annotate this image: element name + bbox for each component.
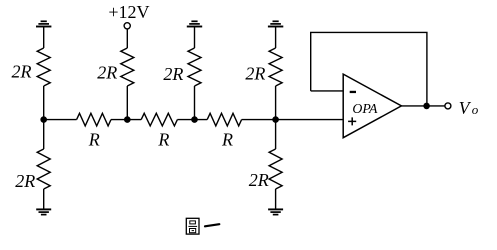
wire feedback loop (left up, top, right down) (311, 32, 427, 106)
caption figure-one character yi (drawn) (205, 224, 219, 226)
op-amp minus sign (350, 91, 356, 93)
caption figure-one character tu (drawn) (186, 218, 199, 234)
svg-text:+12V: +12V (108, 2, 149, 22)
wire node A to resistor R1 (44, 119, 77, 121)
wire column1: resistor to node A (43, 86, 45, 120)
resistor 2R (column 4 lower) (269, 149, 282, 189)
wire op-amp output (401, 105, 445, 107)
wire R3 to node D and op-amp + input (242, 119, 344, 121)
wire column1 top: ground to resistor (43, 27, 45, 49)
junction node C (191, 116, 198, 123)
ground GND top-left (column 1) (36, 21, 51, 26)
svg-text:2R: 2R (163, 64, 183, 84)
wire column2: resistor to node B (126, 86, 128, 120)
resistor 2R (column 1 upper) (37, 48, 50, 86)
wire op-amp inverting input stub (311, 90, 344, 92)
wire column4: resistor to node D (275, 86, 277, 120)
svg-text:2R: 2R (15, 171, 35, 191)
op-amp plus sign (348, 117, 356, 125)
wire R1 to node B (111, 119, 141, 121)
svg-text:R: R (221, 130, 233, 150)
junction output node (423, 103, 430, 110)
resistor R (first, horizontal) (77, 113, 111, 126)
wire column4 top: ground to resistor (275, 27, 277, 49)
wire column1: node A to lower resistor (43, 120, 45, 149)
wire column2: terminal to resistor (126, 29, 128, 48)
svg-text:R: R (88, 129, 100, 149)
wire column1 bottom: resistor to ground (43, 189, 45, 209)
op-amp U1 triangle (343, 74, 401, 138)
svg-text:2R: 2R (97, 63, 117, 83)
svg-text:2R: 2R (12, 62, 32, 82)
svg-text:2R: 2R (249, 170, 269, 190)
resistor 2R (column 1 lower) (37, 149, 50, 189)
junction node B (124, 116, 131, 123)
resistor 2R (column 3) (188, 48, 201, 86)
svg-text:R: R (157, 130, 169, 150)
wire column4: node D to lower resistor (275, 120, 277, 149)
svg-text:2R: 2R (245, 64, 265, 84)
ground GND top (column 3) (187, 21, 202, 26)
resistor 2R (column 2) (121, 48, 134, 86)
terminal Vo (open circle) (445, 103, 451, 109)
svg-text:OPA: OPA (352, 101, 378, 116)
junction node D (272, 116, 279, 123)
resistor R (second, horizontal) (141, 113, 177, 126)
svg-text:o: o (472, 102, 479, 117)
junction node A (40, 116, 47, 123)
wire column3: resistor to node C (194, 86, 196, 120)
ground GND top (column 4) (268, 21, 283, 26)
resistor R (third, horizontal) (207, 113, 241, 126)
terminal +12V (open circle) (124, 23, 130, 29)
wire R2 to node C (177, 119, 207, 121)
resistor 2R (column 4 upper) (269, 48, 282, 86)
wire column3 top: ground to resistor (194, 27, 196, 49)
ground GND bottom-left (column 1) (36, 209, 51, 214)
wire column4 bottom: resistor to ground (275, 189, 277, 209)
ground GND bottom (column 4) (268, 209, 283, 214)
